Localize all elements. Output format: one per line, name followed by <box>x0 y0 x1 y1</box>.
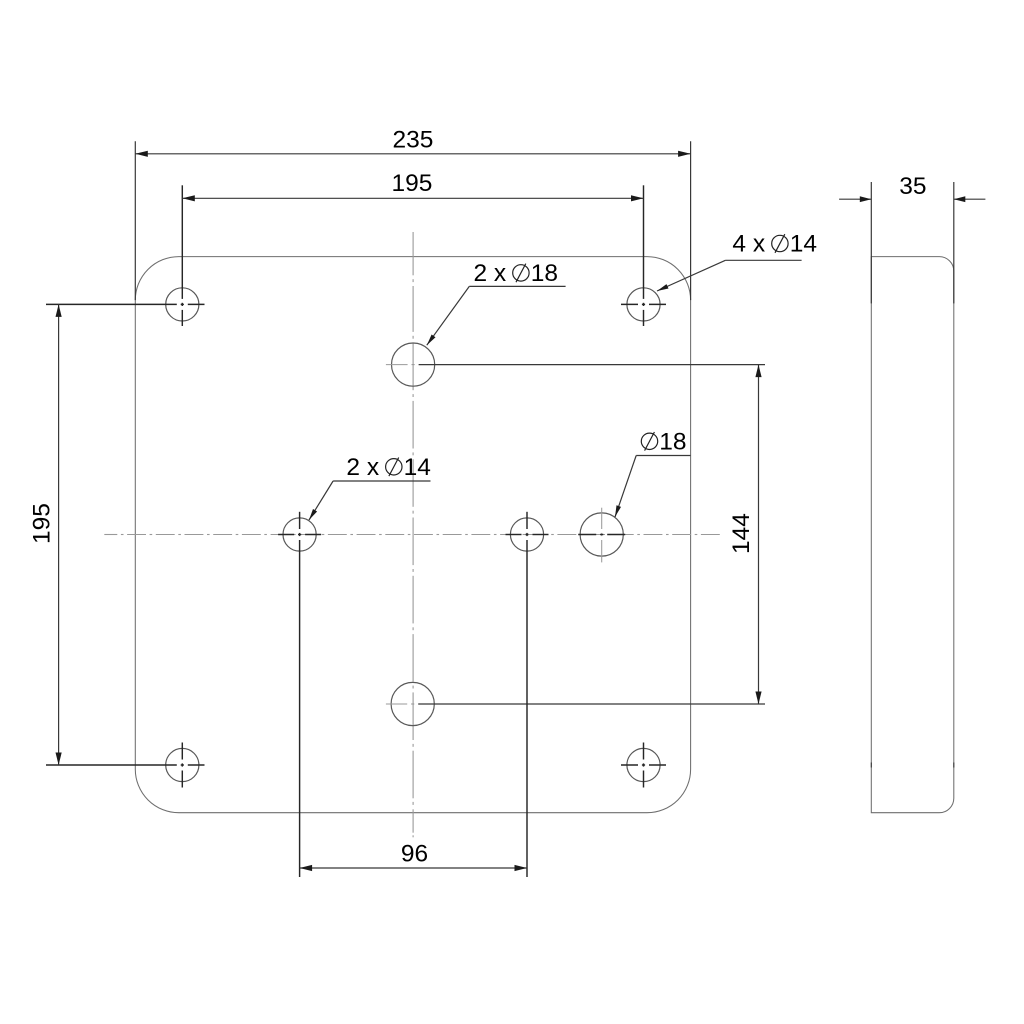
label 2xd18 leader <box>469 285 565 287</box>
mid hole d14 right <box>510 518 543 551</box>
dim 144 extension lines <box>386 364 408 366</box>
label 2xd14 leader <box>333 480 430 482</box>
plate front view outline <box>135 257 690 813</box>
mid hole d14 left <box>283 518 316 551</box>
dim 195 top arrows <box>182 195 195 201</box>
label 4xd14 leader <box>725 259 801 261</box>
plate side view outline <box>871 257 954 813</box>
dim 144 arrows <box>755 365 761 378</box>
svg-text:2 x: 2 x <box>346 454 379 481</box>
svg-text:35: 35 <box>899 173 926 200</box>
crosshair bottom-right hole <box>621 764 638 766</box>
dim 195 left arrows <box>56 304 62 317</box>
corner hole d14 top-right <box>627 288 660 321</box>
crosshair top-right hole <box>621 303 638 305</box>
dim 96 arrows <box>300 865 313 871</box>
dim 195 left line <box>58 304 60 765</box>
dim 235 line <box>135 153 690 155</box>
center hole d18 bottom <box>391 682 434 725</box>
corner hole d14 top-left <box>166 288 199 321</box>
side view tangent ticks <box>870 763 872 768</box>
center hole d18 top <box>392 343 435 386</box>
corner hole d14 bottom-right <box>627 748 660 781</box>
dim 195 left extension lines <box>46 303 177 305</box>
svg-text:195: 195 <box>392 170 433 197</box>
dim 195 top line <box>182 197 643 199</box>
svg-text:18: 18 <box>531 260 558 287</box>
svg-text:195: 195 <box>29 503 56 544</box>
crosshair bottom-left hole <box>181 743 183 760</box>
mid hole d18 right <box>580 513 623 556</box>
svg-text:144: 144 <box>728 513 755 554</box>
dim 235 extension lines <box>134 141 136 300</box>
label d18 text <box>641 433 657 449</box>
crosshair mid d14 left hole <box>278 534 294 536</box>
dim 96 line <box>300 867 527 869</box>
horizontal centerline <box>104 534 117 536</box>
dim 144 line <box>758 365 760 704</box>
svg-text:4 x: 4 x <box>732 231 765 258</box>
corner hole d14 bottom-left <box>166 748 199 781</box>
svg-text:2 x: 2 x <box>474 260 507 287</box>
svg-text:96: 96 <box>401 841 428 868</box>
svg-text:14: 14 <box>404 454 431 481</box>
svg-text:14: 14 <box>790 231 817 258</box>
dim 35 extension lines <box>870 182 872 303</box>
svg-text:18: 18 <box>659 428 686 455</box>
vertical centerline <box>412 232 414 275</box>
dim 35 arrows <box>860 196 872 202</box>
crosshair mid d18 hole <box>601 508 603 529</box>
svg-text:235: 235 <box>393 126 434 153</box>
crosshair mid d14 right hole <box>506 534 522 536</box>
dim 35 line <box>839 198 871 200</box>
dim 96 extension lines <box>299 512 301 529</box>
label d18 leader <box>636 455 690 457</box>
dim 195 top extension lines <box>181 185 183 299</box>
dim 235 arrows <box>135 151 148 157</box>
